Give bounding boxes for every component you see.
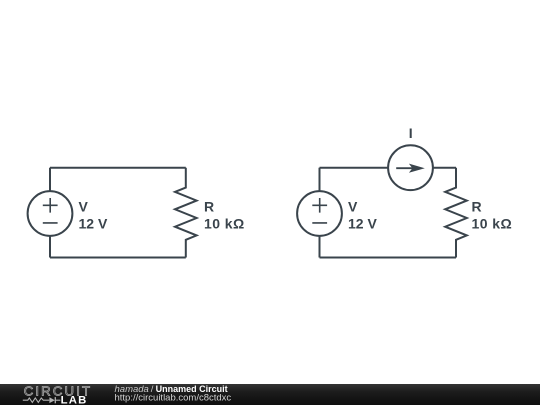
wire: left circuit, left vertical (bottom) <box>49 236 51 258</box>
wire: left circuit, bottom rail <box>50 257 186 259</box>
wire: right circuit, top rail left segment <box>320 167 389 169</box>
CircuitLab logo: resistor zigzag <box>23 398 50 402</box>
svg-text:LAB: LAB <box>61 395 88 405</box>
resistor R (left circuit) <box>175 168 197 258</box>
voltage source V (right circuit) <box>297 191 342 236</box>
wire: right circuit, left vertical (top) <box>319 168 321 191</box>
svg-text:V: V <box>348 198 358 214</box>
svg-text:I: I <box>409 125 413 141</box>
svg-text:V: V <box>79 198 89 214</box>
wire: right circuit, bottom rail <box>320 257 457 259</box>
svg-text:10 kΩ: 10 kΩ <box>472 216 513 232</box>
current source I (right circuit) <box>388 145 433 190</box>
resistor R (right circuit) <box>445 168 467 258</box>
wire: right circuit, top rail right segment <box>433 167 456 169</box>
svg-text:http://circuitlab.com/c8ctdxc: http://circuitlab.com/c8ctdxc <box>115 393 232 404</box>
footer bar <box>0 384 540 405</box>
wire: left circuit, left vertical (top) <box>49 168 51 191</box>
svg-text:R: R <box>472 198 482 214</box>
voltage source V (left circuit) <box>28 191 73 236</box>
CircuitLab logo: diode symbol <box>49 397 60 403</box>
svg-text:10 kΩ: 10 kΩ <box>204 216 245 232</box>
svg-text:12 V: 12 V <box>348 216 377 232</box>
wire: left circuit, top rail <box>50 167 186 169</box>
svg-text:R: R <box>204 198 214 214</box>
wire: right circuit, left vertical (bottom) <box>319 236 321 258</box>
svg-text:12 V: 12 V <box>79 216 108 232</box>
